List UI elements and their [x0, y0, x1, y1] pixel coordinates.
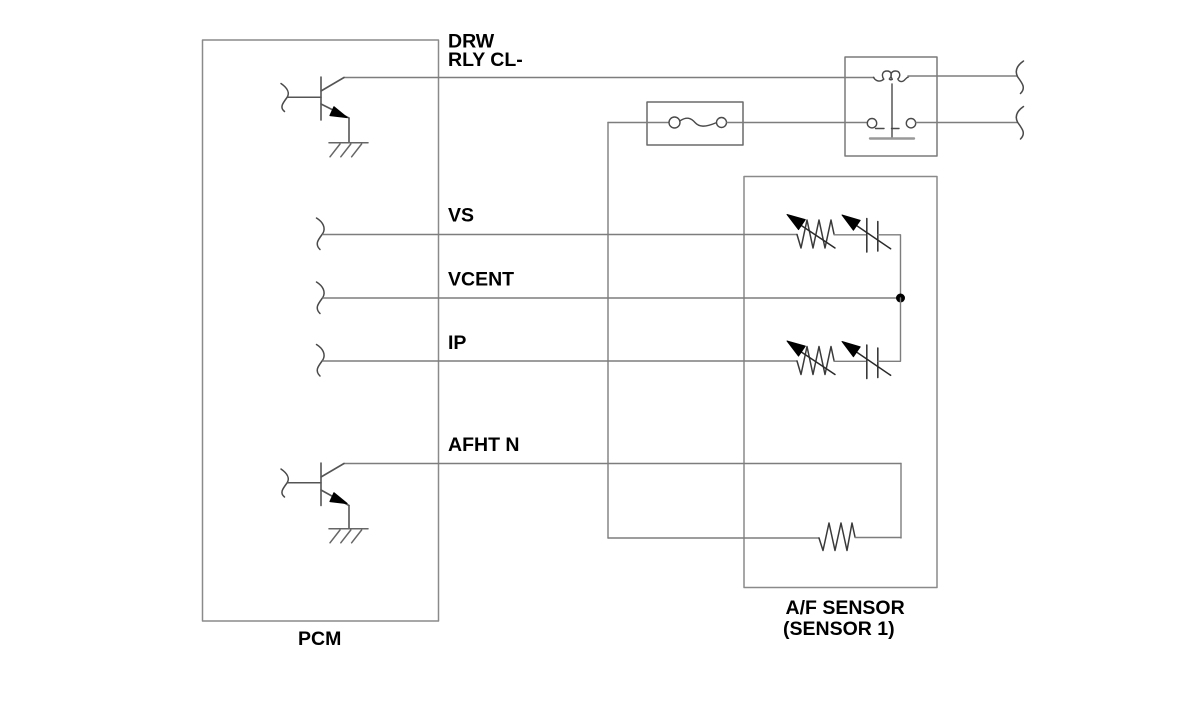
wire vertical B+ drop — [607, 123, 609, 539]
wire B+ horizontal (fuse/relay contacts row) — [608, 122, 668, 124]
junction node — [896, 294, 905, 303]
ground (Q2) — [329, 529, 368, 543]
wire bottom heater feed — [608, 537, 819, 539]
transistor Q1 emitter arrow — [330, 107, 347, 118]
transistor Q2 emitter arrow — [330, 493, 347, 504]
relay contact tick middle — [892, 128, 900, 130]
svg-text:RLY CL-: RLY CL- — [448, 49, 523, 71]
break symbol right bottom — [1016, 107, 1023, 140]
wire VCENT — [323, 297, 900, 299]
transistor Q1 base break — [281, 84, 288, 112]
relay contact right — [906, 119, 915, 128]
relay box — [845, 57, 937, 156]
svg-text:(SENSOR 1): (SENSOR 1) — [783, 618, 895, 640]
fuse element — [681, 118, 716, 126]
PCM box — [203, 40, 439, 621]
break symbol IP — [317, 345, 325, 377]
transistor Q1 base wire — [288, 96, 322, 98]
wire AFHT N — [344, 463, 901, 465]
arrow of variable resistor (VS) — [800, 225, 835, 248]
relay contact left — [867, 119, 876, 128]
break symbol VCENT — [317, 282, 325, 314]
ground (Q1) — [329, 143, 368, 157]
arrow of variable resistor (IP) — [800, 351, 835, 374]
fuse box — [647, 102, 743, 145]
A/F sensor box — [744, 177, 937, 588]
wire capacitor to corner (VS) — [878, 235, 901, 298]
svg-text:PCM: PCM — [298, 628, 341, 650]
break symbol right top — [1016, 61, 1023, 94]
wire resistor to capacitor (IP) — [834, 360, 866, 362]
wire relay to right break — [916, 122, 1017, 124]
fuse right terminal — [717, 118, 727, 128]
transistor Q2 base break — [281, 469, 288, 497]
arrow of variable capacitor (IP) — [855, 351, 891, 375]
heater resistor — [819, 523, 855, 551]
wire AFHT N drop — [900, 464, 902, 539]
relay coil — [874, 71, 909, 82]
wire capacitor to corner (IP) — [878, 298, 901, 361]
svg-text:A/F SENSOR: A/F SENSOR — [786, 597, 905, 619]
svg-text:IP: IP — [448, 332, 466, 354]
wire VS — [323, 234, 797, 236]
variable resistor (IP) — [797, 347, 834, 375]
fuse left terminal — [669, 117, 680, 128]
relay armature — [891, 84, 893, 138]
relay armature bar — [870, 137, 914, 139]
wire resistor to capacitor (VS) — [834, 234, 866, 236]
wire DRW RLY CL- (collector to relay coil) — [344, 77, 874, 79]
break symbol VS — [317, 218, 325, 250]
variable resistor (VS) — [797, 220, 834, 248]
wire coil to right break — [908, 75, 1017, 77]
svg-text:VCENT: VCENT — [448, 269, 514, 291]
transistor Q2 base wire — [288, 482, 322, 484]
wire heater to corner — [855, 537, 901, 539]
variable capacitor (VS) — [866, 219, 868, 253]
relay contact tick left — [876, 128, 885, 130]
transistor Q1 — [321, 77, 349, 143]
wire fuse to relay contact — [727, 122, 867, 124]
transistor Q2 — [321, 463, 349, 529]
variable capacitor (IP) — [866, 345, 868, 379]
arrow of variable capacitor (VS) — [855, 225, 891, 249]
svg-text:VS: VS — [448, 205, 474, 227]
wire IP — [323, 360, 797, 362]
svg-text:AFHT N: AFHT N — [448, 434, 520, 456]
